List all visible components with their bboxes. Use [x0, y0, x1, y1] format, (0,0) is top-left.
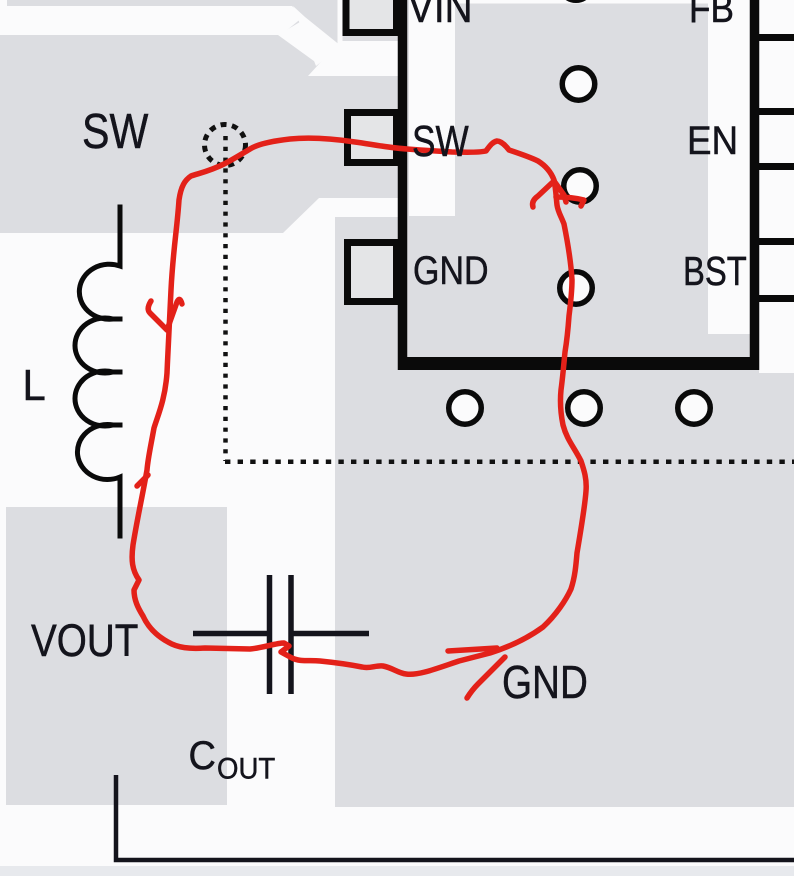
svg-text:GND: GND	[413, 247, 489, 292]
svg-text:EN: EN	[687, 119, 738, 164]
svg-text:SW: SW	[412, 117, 469, 166]
svg-text:GND: GND	[502, 657, 588, 708]
svg-text:OUT: OUT	[217, 752, 275, 785]
svg-text:FB: FB	[689, 0, 734, 30]
svg-text:SW: SW	[82, 104, 149, 159]
svg-text:C: C	[189, 734, 216, 778]
svg-text:L: L	[23, 361, 46, 410]
svg-text:BST: BST	[683, 247, 747, 293]
svg-text:VOUT: VOUT	[31, 615, 138, 666]
svg-text:VIN: VIN	[408, 0, 473, 32]
